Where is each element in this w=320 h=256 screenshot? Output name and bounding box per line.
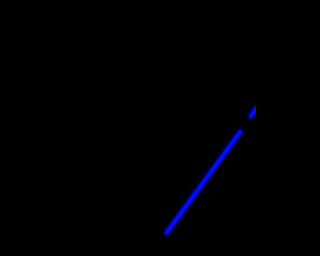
blue trend line: solid core segment bbox=[167, 132, 241, 233]
blue trend line: glow halo of dash segment bbox=[251, 103, 261, 116]
chart canvas (black background) bbox=[0, 0, 256, 256]
blue trend line: glow halo of solid segment bbox=[167, 132, 241, 233]
blue trend line: dash core segment near top-right corner bbox=[251, 103, 261, 116]
